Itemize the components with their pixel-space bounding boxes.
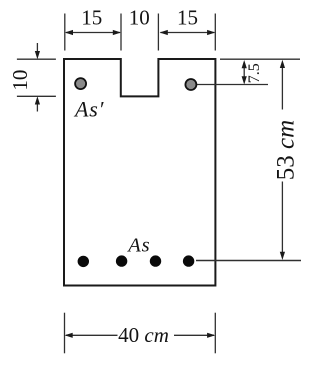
svg-text:As: As xyxy=(126,235,150,257)
svg-text:40 cm: 40 cm xyxy=(118,323,169,347)
svg-text:7.5: 7.5 xyxy=(246,63,263,83)
svg-text:10: 10 xyxy=(129,5,150,29)
svg-text:53 cm: 53 cm xyxy=(273,120,300,180)
svg-text:15: 15 xyxy=(81,5,102,29)
svg-text:As′: As′ xyxy=(73,97,105,122)
svg-text:15: 15 xyxy=(177,5,198,29)
svg-text:10: 10 xyxy=(8,70,32,91)
